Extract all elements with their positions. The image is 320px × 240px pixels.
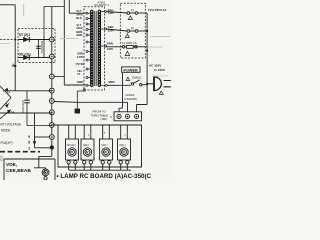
pin P4	[49, 88, 54, 93]
fuse F1	[122, 41, 147, 48]
switch SW601	[131, 83, 133, 85]
junction dot bus	[146, 49, 148, 51]
junction filled node	[50, 145, 54, 149]
diode D-ST	[23, 37, 29, 42]
AC plug	[154, 77, 161, 91]
transformer primary winding	[91, 10, 101, 86]
pin P7	[49, 135, 54, 140]
wire P6 row segment	[27, 125, 52, 127]
node dot left upper	[14, 39, 16, 41]
pin P6	[49, 123, 54, 128]
wire ORN to F1	[105, 46, 123, 48]
wire feed vertical x69	[69, 0, 86, 13]
warning triangle plug	[159, 91, 163, 94]
wire selector row	[3, 90, 52, 92]
lamp unit 4	[118, 125, 131, 170]
scan noise	[0, 4, 170, 162]
dashed box standby indicator	[18, 29, 55, 63]
board boundary dashed	[0, 151, 40, 153]
POWER box	[122, 67, 140, 72]
transformer right pins	[101, 12, 106, 86]
wire top horizontal	[0, 4, 15, 6]
terminal bus	[69, 169, 131, 171]
wire ST row dashed left	[0, 39, 18, 41]
diode D-OK	[23, 55, 29, 60]
wire P5 row	[0, 112, 52, 114]
warning triangle SW	[126, 77, 130, 80]
transformer secondary winding	[98, 10, 100, 13]
wire top horizontal b	[44, 6, 64, 8]
lamp unit 1	[66, 125, 79, 170]
node dot left lower with stub	[14, 65, 16, 67]
warning triangle F3	[128, 16, 132, 20]
wire P4 branch to bus	[77, 91, 84, 109]
warning triangle F1	[125, 51, 130, 55]
wire P3 branch	[54, 76, 64, 78]
capacitor C601	[26, 91, 28, 126]
lamp VDE	[42, 169, 49, 176]
transformer core	[95, 11, 97, 86]
connector J box	[114, 112, 142, 121]
wire feed vertical x64	[63, 0, 65, 85]
wire mid bus	[54, 101, 128, 104]
fuse F2	[127, 27, 148, 33]
connector pin column	[51, 7, 53, 148]
wire left vertical	[14, 5, 16, 91]
fuse dashed box	[120, 3, 145, 58]
terminal below VDE lamp	[45, 176, 47, 177]
wire stub column x34.5	[34, 113, 36, 148]
wire to transformer y85	[64, 84, 86, 86]
transformer bottom pin	[83, 89, 85, 91]
wire stub 2	[35, 147, 50, 149]
fuse F3	[127, 9, 147, 15]
wire BRN to switch	[107, 84, 131, 86]
wire stub 9	[35, 136, 50, 138]
pin P1	[49, 37, 54, 42]
pin P3	[49, 74, 54, 79]
wire vertical x44	[43, 6, 45, 57]
connector pins	[117, 114, 139, 118]
lamp board outline	[52, 125, 142, 167]
transformer left pins	[88, 13, 91, 85]
wire switch riser	[119, 73, 123, 112]
capacitor C604	[36, 46, 41, 48]
voltage selector diagonals	[0, 86, 11, 110]
warning triangle F2	[125, 34, 129, 38]
pin P5	[49, 110, 54, 115]
wire RED to F2	[107, 29, 127, 31]
pin P4b	[49, 99, 54, 104]
pin P2	[49, 54, 54, 59]
lamp unit 3	[100, 125, 113, 170]
wire OK row	[18, 57, 52, 59]
polarized cap black	[75, 109, 80, 114]
junction dot stub	[33, 141, 36, 144]
wires connector risers	[128, 103, 148, 112]
wire inner vertical	[38, 40, 40, 58]
wire right bus	[146, 13, 148, 105]
transformer T601 dashed box	[84, 7, 105, 90]
wire node to VDE lamp	[34, 148, 52, 170]
VDE box	[4, 159, 55, 180]
lamp unit 2	[81, 125, 94, 170]
wire ST row	[18, 39, 52, 41]
selector arrow	[0, 110, 11, 119]
wire BLU to F3	[107, 12, 127, 14]
